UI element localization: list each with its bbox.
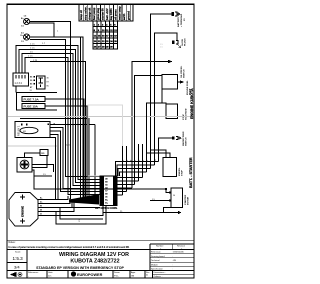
svg-text:Drawn: Drawn [114,272,120,274]
plug X3 glow [160,38,187,49]
ignition switch S1 [17,150,169,193]
svg-text:charge alt: charge alt [88,8,92,20]
svg-text:References: References [28,272,38,274]
ground loop wire [60,208,103,220]
svg-text:SOLENOID: SOLENOID [186,108,188,120]
svg-text:BATTERY 12V: BATTERY 12V [177,12,180,27]
svg-text:batt +12V: batt +12V [105,8,109,20]
svg-text:mm: mm [48,276,52,278]
svg-text:In case of panel remote mounti: In case of panel remote mounting connect… [9,245,130,249]
projection symbol [11,272,23,276]
svg-text:BATT. - STARTER: BATT. - STARTER [189,157,193,188]
J1 wires to terminal row [116,162,159,196]
svg-text:First issue: First issue [151,251,161,254]
svg-text:Scale: Scale [15,251,21,253]
svg-text:Ordernr. :: Ordernr. : [154,275,163,278]
box fuel pump B1 [162,75,192,96]
svg-text:+ TERMINAL: + TERMINAL [180,13,183,27]
terminal grid M1 lower (pin table) [93,21,118,49]
bus wire 2 [19,50,100,183]
svg-text:SWITCH: SWITCH [186,137,188,146]
engine octagon [9,193,38,227]
svg-text:glow plug: glow plug [96,7,100,20]
svg-text:ENGINE KUBOTA: ENGINE KUBOTA [190,88,194,119]
svg-text:01: 01 [146,274,148,276]
wire 178 [30,62,86,200]
svg-text:oil press: oil press [113,9,117,20]
svg-text:Units: Units [48,271,53,274]
svg-text:FUSE 15A: FUSE 15A [24,105,39,109]
svg-text:Specification: Specification [151,267,164,270]
svg-text:1:5.3: 1:5.3 [13,256,24,261]
plug X2 battery [172,12,187,27]
logo [71,271,76,276]
wire from H1 to bundle [30,22,71,200]
svg-text:W: W [40,206,42,208]
harness wedge [69,194,99,205]
lamp H1 (oil pressure warning light) [21,16,30,28]
wire to battery plug [151,14,172,169]
wire jog below H1 [30,23,81,199]
fold line gray [8,116,193,118]
engine wires [38,196,106,224]
verticals down from grid [123,76,163,196]
svg-text:1 2 3 4: 1 2 3 4 [15,82,23,85]
panel gray outline [88,105,123,176]
wire to cold start plug [155,33,178,165]
svg-text:Module: Module [151,264,159,266]
terminal strip M1 header (12 cells, vertical text) [79,5,133,22]
svg-text:lamp oil: lamp oil [79,10,83,20]
svg-text:GM: GM [131,276,135,278]
svg-text:Dimensions :: Dimensions : [154,272,166,274]
svg-text:key 15/54: key 15/54 [109,8,113,20]
fuse F2 [22,104,87,200]
svg-text:ground: ground [126,11,130,20]
lamp H2 (battery charge light) [21,33,30,44]
bottom row cells [27,269,194,271]
connector X1 (4 pole) [13,73,29,86]
fuse F1 [22,97,84,200]
right info column [149,244,151,270]
svg-text:Technical: Technical [151,260,160,262]
bus wire 3 [22,54,100,186]
wire from H2 [30,37,83,199]
svg-text:STANDARD EP VERSION WITH EMERG: STANDARD EP VERSION WITH EMERGENCY STOP [36,266,124,270]
bus wire 1 [16,46,100,180]
svg-text:EUROPOWER: EUROPOWER [77,273,103,277]
svg-text:Drawing board: Drawing board [151,255,165,258]
panel wire right [94,125,96,200]
svg-text:SWITCH: SWITCH [184,69,186,78]
svg-text:50: 50 [40,210,42,212]
relay K1 (preheat timer) [16,76,50,93]
title block [8,240,194,278]
svg-text:stop solen.: stop solen. [83,6,87,20]
svg-text:MOTOR: MOTOR [188,196,190,205]
svg-text:starter 50: starter 50 [101,8,105,20]
svg-text:STOP: STOP [182,170,184,176]
box stop solenoid B2 [162,89,188,120]
svg-text:Appr.: Appr. [131,271,136,274]
bold margin label engine [189,88,194,188]
svg-text:Notes:: Notes: [9,241,16,244]
relay RE1 [15,119,100,200]
border frame [7,4,194,278]
terminal row labels [122,159,156,162]
bus wire 4 [25,58,100,195]
connector J1 block [95,176,118,210]
svg-text:earth: earth [122,13,126,20]
left column cells [26,249,28,278]
plug water temp [159,131,188,162]
svg-text:fuel pump: fuel pump [92,7,96,20]
panel outline [17,93,58,111]
starter relay RL [103,188,190,214]
svg-text:water temp: water temp [118,6,122,20]
svg-text:KEY SWITCH CONN.: KEY SWITCH CONN. [95,208,118,210]
svg-text:: VB: : VB [172,260,177,262]
hour counter box B3 [147,150,184,177]
svg-text:WIRING DIAGRAM 12V FOR: WIRING DIAGRAM 12V FOR [59,252,129,258]
svg-text:31: 31 [40,214,42,216]
svg-text:50: 50 [173,195,175,197]
svg-text:ENGINE: ENGINE [21,206,25,217]
fold line gray 2 [8,145,57,147]
svg-text:P.V.L.: P.V.L. [114,276,119,278]
svg-text:3/4: 3/4 [14,264,20,269]
arrow to oil pressure switch [132,60,186,188]
svg-text:FUSE 7.5A: FUSE 7.5A [24,98,40,102]
svg-text:: 18/05/2006: : 18/05/2006 [172,252,184,254]
svg-text:KUBOTA Z482/Z722: KUBOTA Z482/Z722 [70,259,119,265]
svg-text:PLUGS: PLUGS [185,38,187,46]
